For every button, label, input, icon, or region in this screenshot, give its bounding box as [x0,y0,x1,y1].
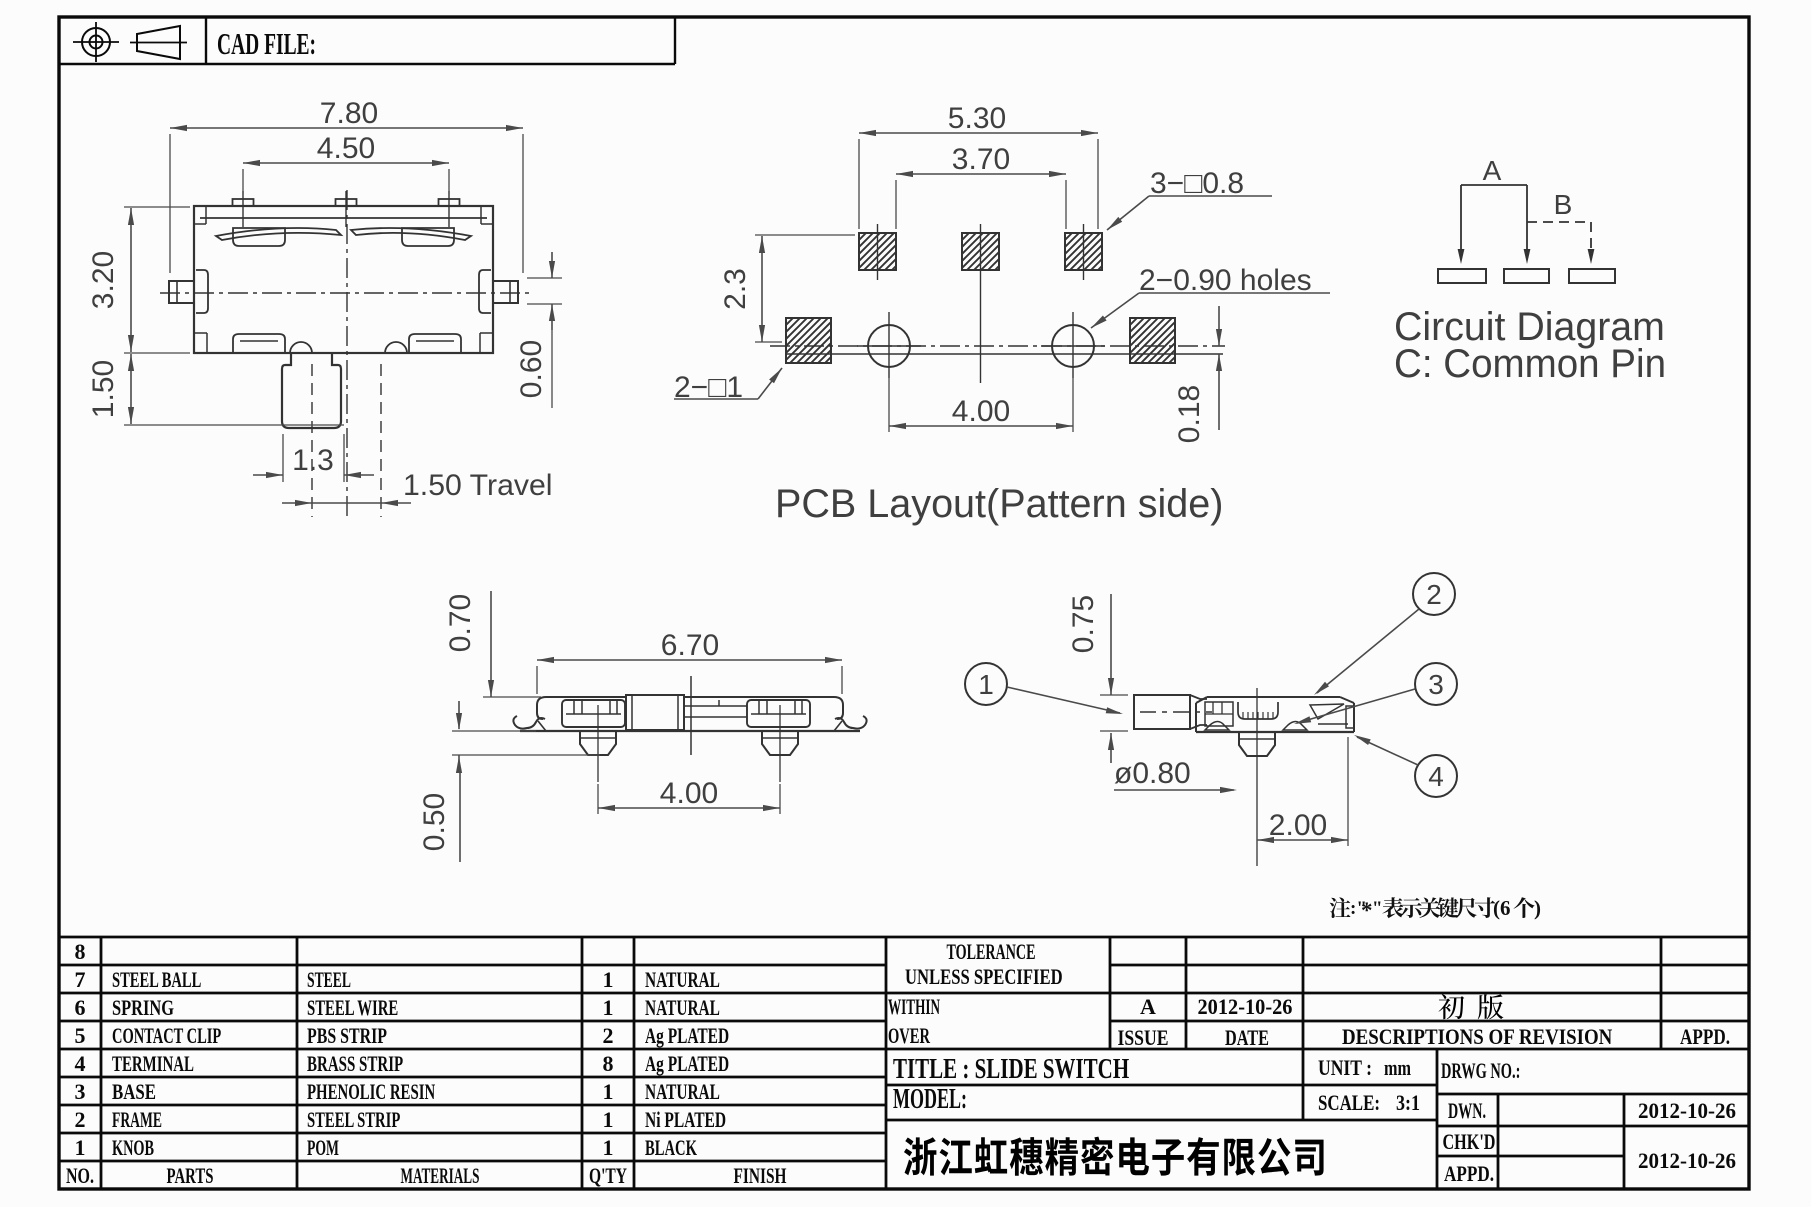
section: knob shaft [1134,695,1190,729]
svg-text:CHK'D: CHK'D [1443,1131,1496,1155]
svg-text:1.3: 1.3 [292,444,334,477]
svg-text:STEEL STRIP: STEEL STRIP [307,1108,400,1133]
side view: left clip box [562,700,625,727]
side view: left gull-wing terminal [513,716,545,729]
svg-text:Ag PLATED: Ag PLATED [645,1052,729,1076]
top view: bottom bumps [290,342,312,353]
cone symbol [137,26,180,59]
svg-text:POM: POM [307,1136,339,1160]
svg-text:CAD FILE:: CAD FILE: [217,26,316,61]
top view: corner steps [194,223,206,225]
svg-text:1: 1 [603,1079,614,1104]
circuit pad 2 [1504,269,1549,283]
section: foot [1239,732,1275,756]
svg-text:5: 5 [75,1023,86,1048]
svg-text:PCB Layout(Pattern side): PCB Layout(Pattern side) [775,482,1223,526]
dim 3.20 [130,208,132,352]
section: right wedge [1310,704,1344,719]
svg-text:WITHIN: WITHIN [888,995,940,1019]
circuit B dashed branch [1527,221,1591,223]
circuit pad 1 [1438,269,1486,283]
svg-text:KNOB: KNOB [112,1136,154,1161]
svg-text:4: 4 [75,1051,86,1076]
svg-text:B: B [1554,189,1573,220]
svg-text:3.20: 3.20 [87,251,120,309]
svg-text:2012-10-26: 2012-10-26 [1638,1149,1736,1174]
svg-text:3:1: 3:1 [1396,1091,1420,1115]
svg-text:3: 3 [75,1079,86,1104]
svg-text:Q'TY: Q'TY [589,1165,627,1189]
svg-text:6: 6 [75,995,86,1020]
circuit pad 3 [1569,269,1615,283]
svg-text:1: 1 [603,967,614,992]
svg-text:DATE: DATE [1225,1027,1269,1051]
svg-text:8: 8 [75,939,86,964]
balloon 4 [1415,755,1457,797]
dim 0.70 [490,591,492,697]
svg-text:5.30: 5.30 [948,102,1006,135]
PCB holes: two 0.90 circles [868,325,910,367]
svg-text:4: 4 [1428,761,1444,792]
svg-text:A: A [1483,155,1502,186]
svg-text:0.18: 0.18 [1173,385,1206,443]
svg-text:TOLERANCE: TOLERANCE [947,940,1036,964]
svg-text:1: 1 [603,1107,614,1132]
dim 0.50 [458,755,460,767]
top view: right side knob [479,270,491,313]
svg-text:A: A [1140,994,1156,1019]
svg-text:7: 7 [75,967,86,992]
svg-text:TITLE : SLIDE SWITCH: TITLE : SLIDE SWITCH [893,1054,1129,1085]
svg-text:": " [1372,898,1383,919]
svg-text:C: Common Pin: C: Common Pin [1394,341,1666,386]
top view: frame inner top line [200,217,487,219]
dim 4.00 [889,425,1073,427]
svg-text:BASE: BASE [112,1081,156,1105]
svg-text:DRWG NO.:: DRWG NO.: [1441,1059,1520,1084]
svg-text:Ni PLATED: Ni PLATED [645,1109,726,1133]
svg-text:STEEL: STEEL [307,968,351,992]
table grid horizontals [59,936,1749,939]
dim 0.18 [1218,306,1220,346]
dim 1.3 [282,434,284,482]
svg-text:6.70: 6.70 [661,629,719,662]
svg-text:7.80: 7.80 [320,97,378,130]
svg-text:4.50: 4.50 [317,132,375,165]
balloon 3 [1415,663,1457,705]
svg-text:0.75: 0.75 [1067,595,1100,653]
svg-text:0.60: 0.60 [515,340,548,398]
svg-text:2: 2 [75,1107,86,1132]
svg-text:4.00: 4.00 [952,395,1010,428]
svg-text:CONTACT CLIP: CONTACT CLIP [112,1024,221,1049]
dim 4.00 feet [598,807,780,809]
note: key dimensions [1330,897,1351,918]
dim 2.3 [761,236,763,342]
top view: contact windows [233,228,285,246]
side view: slider rails right of block [684,705,747,707]
svg-text:UNLESS SPECIFIED: UNLESS SPECIFIED [905,966,1063,990]
balloon 2 [1413,573,1455,615]
svg-text:2−0.90 holes: 2−0.90 holes [1139,264,1312,297]
svg-text:3−□0.8: 3−□0.8 [1150,167,1244,200]
company name [904,1137,1324,1176]
dim 4.50 [243,162,449,164]
svg-text:NATURAL: NATURAL [645,968,720,992]
svg-text:NO.: NO. [66,1165,94,1189]
svg-text:2012-10-26: 2012-10-26 [1198,994,1293,1019]
svg-text:BLACK: BLACK [645,1136,697,1161]
top view: knob (actuator) [282,353,341,428]
svg-text:1: 1 [75,1135,86,1160]
top view: left side knob [196,270,208,313]
svg-text:0.70: 0.70 [444,594,477,652]
svg-text:OVER: OVER [888,1024,930,1049]
svg-text:STEEL WIRE: STEEL WIRE [307,996,398,1021]
section: center crown contact [1238,702,1278,719]
side view: right gull-wing terminal [835,716,867,729]
svg-text:1: 1 [978,669,994,700]
dim 0.75 [1110,594,1112,695]
svg-text:1: 1 [603,995,614,1020]
top view: three mounting tabs on top edge [233,199,254,206]
dim 0.60 [551,252,553,278]
svg-text:2012-10-26: 2012-10-26 [1638,1099,1736,1124]
svg-text:PBS STRIP: PBS STRIP [307,1025,387,1049]
svg-text:): ) [1534,896,1541,920]
dim 1.50 knob [130,354,132,424]
side view: rounded right end cap [834,697,843,719]
side view: feet (terminals) [580,731,616,755]
svg-text:PARTS: PARTS [167,1164,214,1189]
section: lower wave contacts [1205,722,1229,731]
svg-text:NATURAL: NATURAL [645,1080,720,1104]
svg-text:SPRING: SPRING [112,997,174,1021]
svg-text:ø0.80: ø0.80 [1114,757,1191,790]
top view: switch body outline [194,206,493,353]
svg-text:3: 3 [1428,669,1444,700]
dim 2.00 [1257,839,1348,841]
section: left pocket [1205,702,1233,726]
svg-text:SCALE:: SCALE: [1318,1092,1380,1116]
dim 3.70 [896,173,1066,175]
svg-text:4.00: 4.00 [660,777,718,810]
svg-text:2: 2 [603,1023,614,1048]
svg-text:APPD.: APPD. [1444,1162,1494,1187]
svg-text:DESCRIPTIONS OF REVISION: DESCRIPTIONS OF REVISION [1342,1026,1612,1050]
side view: body bottom seat line [520,730,860,732]
svg-text:FINISH: FINISH [734,1164,787,1188]
svg-text:FRAME: FRAME [112,1108,162,1132]
small arrow pair left [458,701,460,729]
svg-text:1: 1 [603,1135,614,1160]
svg-text:NATURAL: NATURAL [645,996,720,1020]
svg-text:1.50: 1.50 [87,360,120,418]
svg-text:ISSUE: ISSUE [1118,1026,1169,1050]
svg-text:UNIT :: UNIT : [1318,1056,1372,1080]
svg-text:8: 8 [603,1051,614,1076]
dim 5.30 [859,132,1098,134]
circuit A bracket [1460,185,1462,252]
third-angle projection symbol [82,28,110,56]
svg-text:DWN.: DWN. [1448,1099,1486,1123]
dim 1.50 travel [282,502,312,504]
side view: rounded left end cap [537,697,546,719]
table grid verticals [100,937,103,1189]
PCB row lines [770,345,1225,347]
top view: bottom edge tabs [233,334,285,353]
side view: section centerline [690,676,692,755]
balloon 1 [965,663,1007,705]
dim 6.70 [537,659,842,661]
svg-text:0.50: 0.50 [418,793,451,851]
svg-text:mm: mm [1384,1057,1411,1081]
side view: center knob block [626,695,684,730]
svg-text:2.00: 2.00 [1269,809,1327,842]
svg-text:2: 2 [1426,579,1442,610]
top view: leaf springs [216,228,341,240]
svg-text:1.50 Travel: 1.50 Travel [403,469,553,502]
svg-text:Ag PLATED: Ag PLATED [645,1024,729,1048]
side view: body top edge [546,696,626,698]
svg-text:APPD.: APPD. [1680,1025,1730,1050]
svg-text:STEEL BALL: STEEL BALL [112,968,201,993]
CAD FILE header box [59,63,675,65]
top view: centerlines [160,292,532,294]
section: body outline [1207,696,1340,698]
svg-text:BRASS STRIP: BRASS STRIP [307,1052,403,1077]
svg-text:MATERIALS: MATERIALS [401,1164,480,1188]
dim 7.80 [170,127,523,129]
svg-text:TERMINAL: TERMINAL [112,1052,194,1077]
section: transition neck [1190,695,1207,729]
svg-text:*: * [1361,898,1373,923]
svg-text:MODEL:: MODEL: [893,1084,967,1115]
svg-text:3.70: 3.70 [952,143,1010,176]
svg-text:2.3: 2.3 [719,268,752,310]
svg-text:PHENOLIC RESIN: PHENOLIC RESIN [307,1080,436,1105]
side view: right clip box [747,700,810,727]
svg-text:(6: (6 [1493,896,1511,920]
